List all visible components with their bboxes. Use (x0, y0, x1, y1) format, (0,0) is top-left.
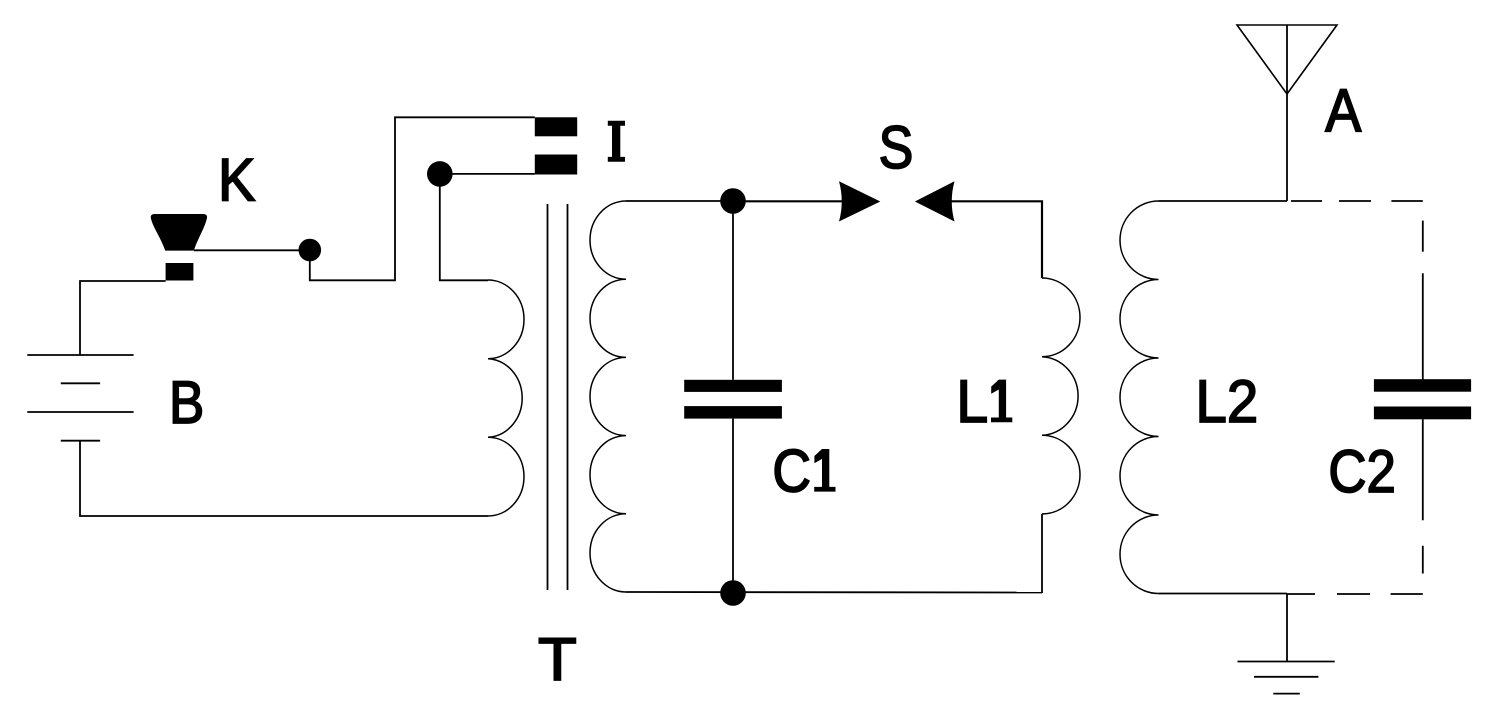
ground lead (1286, 594, 1288, 662)
svg-text:B: B (169, 369, 204, 436)
wire battery bottom to transformer primary (80, 441, 488, 516)
spark gap S right electrode (915, 181, 955, 221)
interrupter I contact 2 (535, 155, 577, 175)
wire node to contact 2 (440, 173, 535, 175)
node dot C1 top (720, 188, 746, 214)
key K contact block (166, 263, 194, 281)
key K knob (151, 214, 207, 251)
inductor L2 (1120, 201, 1159, 594)
bottom rail L2 to ground (1159, 593, 1288, 595)
wire node down to primary coil (440, 174, 488, 280)
battery B (27, 355, 133, 441)
capacitor C2 plates (1374, 379, 1471, 392)
wire spark gap to L1 (950, 201, 1042, 278)
antenna A lead (1286, 25, 1288, 201)
spark gap S left electrode (839, 181, 880, 221)
ground symbol (1238, 662, 1335, 694)
svg-text:S: S (879, 114, 914, 181)
transformer T core (547, 204, 549, 590)
svg-text:A: A (1325, 77, 1361, 144)
interrupter I contact 1 (535, 117, 577, 136)
top rail L2 to antenna (1159, 200, 1288, 202)
node dot below I (427, 161, 453, 187)
inductor L1 (1042, 278, 1080, 514)
svg-text:C: C (772, 438, 811, 505)
transformer T secondary coil (590, 201, 626, 592)
antenna A triangle (1237, 25, 1337, 94)
top rail secondary to C1 node (626, 200, 733, 202)
transformer T primary coil (488, 280, 524, 516)
svg-text:T: T (538, 626, 577, 693)
wire key node down and to vertical riser (310, 117, 535, 280)
svg-text:K: K (218, 147, 255, 214)
wire battery top to key contact (80, 281, 166, 355)
digit 1 of L1 (991, 380, 1012, 423)
capacitor C1 plates (684, 380, 782, 392)
svg-text:L: L (956, 368, 988, 435)
dashed wire C2 bottom to ground rail (1287, 419, 1423, 594)
bottom rail of tank circuit (626, 591, 1042, 594)
wire L1 bottom (1041, 514, 1043, 593)
node dot at key (299, 239, 322, 262)
wire C1 top node to spark gap (733, 200, 845, 202)
label I (drawn) (608, 121, 625, 162)
capacitor C1 wires (732, 201, 734, 380)
digit 1 of C1 (814, 449, 835, 492)
wire key knob to node (194, 249, 310, 251)
dashed wire antenna to C2 top (1291, 201, 1423, 380)
svg-text:L2: L2 (1196, 368, 1259, 435)
svg-text:C2: C2 (1328, 438, 1396, 505)
node dot C1 bottom (720, 580, 746, 606)
